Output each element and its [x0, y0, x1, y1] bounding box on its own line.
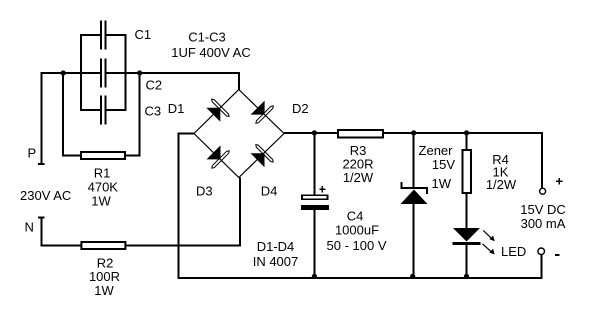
wire N lead	[41, 217, 43, 247]
svg-text:LED: LED	[501, 244, 526, 259]
svg-text:D1: D1	[168, 101, 185, 116]
diode D3	[205, 144, 230, 169]
wire bottom rail	[178, 277, 543, 279]
svg-text:1W: 1W	[94, 283, 114, 298]
wire LED to rail	[466, 245, 468, 278]
node zener top junction	[411, 130, 416, 135]
wire zener branch	[413, 133, 415, 188]
bridge diamond	[194, 90, 284, 178]
wire plus rail	[284, 132, 338, 134]
zener D5 cathode bar	[400, 187, 428, 189]
resistor R4	[463, 150, 472, 193]
node C4 top junction	[312, 130, 317, 135]
svg-text:C3: C3	[145, 104, 162, 119]
wire R2 to bridge	[126, 245, 240, 247]
svg-text:C1-C3: C1-C3	[188, 30, 226, 45]
svg-text:1/2W: 1/2W	[343, 170, 374, 185]
C4 plus polarity mark	[319, 189, 325, 191]
terminal minus output	[538, 248, 545, 255]
resistor R1	[81, 152, 125, 159]
node main-right junction	[137, 70, 142, 75]
wire top rung	[81, 34, 100, 36]
wire bottom rung	[81, 109, 100, 111]
svg-text:1/2W: 1/2W	[486, 177, 517, 192]
wire ladder left rail	[80, 34, 82, 111]
LED arrow 2	[483, 244, 495, 255]
resistor R3	[338, 130, 383, 138]
svg-text:50 - 100 V: 50 - 100 V	[327, 238, 387, 253]
node zener bottom junction	[410, 274, 415, 279]
diode D4	[249, 144, 274, 169]
svg-text:Zener: Zener	[419, 143, 454, 158]
capacitor C4 top plate	[301, 195, 329, 201]
svg-text:15V: 15V	[432, 157, 455, 172]
svg-text:P: P	[28, 146, 37, 161]
svg-text:1000uF: 1000uF	[335, 223, 379, 238]
wire minus terminal	[541, 255, 543, 278]
svg-text:D2: D2	[292, 101, 309, 116]
svg-text:1UF 400V AC: 1UF 400V AC	[171, 45, 251, 60]
diode D2	[249, 99, 274, 124]
wire bridge minus out	[178, 133, 195, 135]
svg-text:15V DC: 15V DC	[520, 202, 566, 217]
wire R1 right branch	[139, 73, 141, 157]
wire R4 branch	[466, 133, 468, 150]
terminal N tick	[38, 217, 44, 219]
svg-text:100R: 100R	[89, 269, 120, 284]
svg-text:230V AC: 230V AC	[20, 188, 71, 203]
svg-text:470K: 470K	[88, 180, 119, 195]
wire main AC top	[41, 72, 100, 74]
capacitor C4 bottom plate	[301, 205, 329, 210]
node main-left junction	[61, 70, 66, 75]
node C4 bottom junction	[312, 274, 317, 279]
svg-text:C1: C1	[135, 27, 152, 42]
LED cathode bar	[453, 242, 481, 245]
svg-text:N: N	[25, 220, 34, 235]
LED triangle	[453, 228, 480, 242]
wire C4 branch	[313, 133, 315, 195]
terminal P tick	[38, 163, 44, 165]
node LED bottom junction	[464, 274, 469, 279]
svg-text:D3: D3	[196, 184, 213, 199]
svg-text:D4: D4	[261, 184, 278, 199]
node R4 top junction	[464, 130, 469, 135]
wire ladder right rail	[124, 34, 126, 111]
svg-text:1W: 1W	[91, 194, 111, 209]
svg-text:C4: C4	[347, 209, 364, 224]
svg-text:R1: R1	[94, 165, 111, 180]
terminal plus output	[540, 188, 546, 194]
wire P lead	[41, 72, 43, 165]
svg-text:D1-D4: D1-D4	[257, 239, 295, 254]
svg-text:C2: C2	[146, 78, 163, 93]
resistor R2	[81, 242, 125, 249]
minus sign output	[555, 254, 560, 256]
zener diode triangle	[401, 190, 428, 205]
capacitor C2	[100, 59, 102, 88]
wire R1 left branch	[62, 73, 64, 157]
capacitor C1	[100, 21, 102, 50]
plus sign output	[556, 181, 562, 183]
svg-text:300 mA: 300 mA	[521, 216, 566, 231]
capacitor C3	[100, 96, 102, 125]
svg-text:1W: 1W	[432, 176, 452, 191]
diode D1	[205, 98, 230, 123]
svg-text:IN 4007: IN 4007	[253, 254, 299, 269]
LED arrow 1	[483, 230, 495, 241]
